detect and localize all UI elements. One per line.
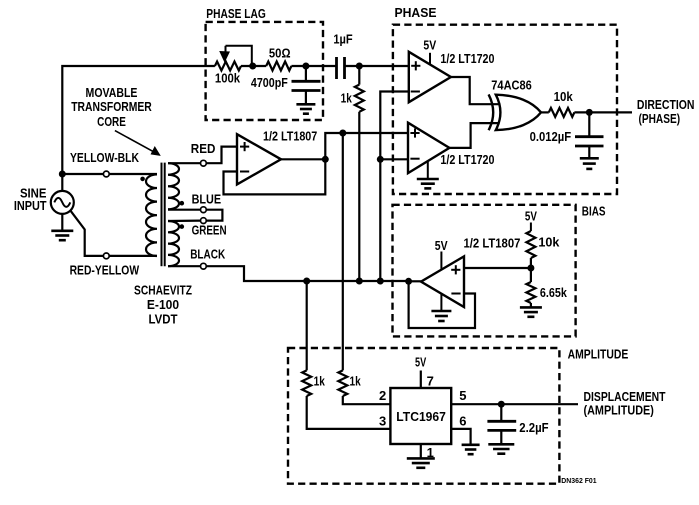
capacitor 0.012µF [575, 112, 604, 158]
label 6.65k [540, 285, 568, 300]
svg-text:(PHASE): (PHASE) [639, 111, 681, 126]
wire 5V stub comparator top [429, 53, 431, 65]
terminal BLACK [201, 263, 207, 269]
wire sine to ground [61, 214, 63, 231]
pin label 5 [459, 388, 466, 403]
capacitor 1µF [337, 57, 409, 79]
label 10k bias [538, 234, 560, 249]
svg-text:1/2 LT1807: 1/2 LT1807 [263, 128, 317, 143]
svg-text:100k: 100k [215, 71, 241, 86]
wire sine to primary bottom [70, 211, 157, 256]
svg-text:1/2 LT1720: 1/2 LT1720 [440, 51, 494, 66]
terminal RED-YELLOW [103, 253, 109, 259]
wire BLACK lead [168, 265, 200, 267]
svg-text:5V: 5V [415, 355, 426, 370]
pin label 3 [379, 414, 386, 429]
wire RED lead [168, 162, 200, 164]
terminal GREEN [201, 218, 207, 224]
label DN362 F01 [561, 478, 596, 485]
svg-text:LTC1967: LTC1967 [396, 409, 446, 424]
wire signal down to amplitude [342, 133, 344, 370]
label 5V comparator top [423, 38, 436, 53]
label PHASE LAG [206, 6, 265, 21]
potentiometer 100k [215, 46, 252, 71]
wire 5V stub bias op-amp [440, 252, 442, 270]
svg-text:BLUE: BLUE [192, 192, 222, 207]
phase dot secondary S1 [180, 201, 185, 206]
label BLUE [192, 192, 222, 207]
label RED-YELLOW [70, 262, 140, 277]
svg-text:1k: 1k [314, 374, 326, 389]
op-amp U3 1/2 LT1807 bias [421, 256, 464, 307]
svg-text:1k: 1k [350, 374, 362, 389]
resistor 1k left [302, 370, 311, 396]
svg-text:10k: 10k [538, 234, 560, 249]
wire 50ohm to 1uF [291, 65, 336, 67]
pin label 6 [459, 414, 466, 429]
svg-text:BIAS: BIAS [582, 203, 606, 218]
svg-text:2.2µF: 2.2µF [519, 420, 548, 435]
pin label 2 [379, 388, 386, 403]
wire buffer feedback [224, 159, 326, 194]
svg-text:DN362 F01: DN362 F01 [561, 478, 596, 485]
wire bias down to amplitude [306, 281, 308, 370]
svg-text:PHASE: PHASE [395, 5, 437, 20]
wire pot to 50ohm [241, 65, 266, 67]
wire xor output [541, 111, 549, 113]
svg-text:SCHAEVITZ: SCHAEVITZ [134, 283, 192, 298]
node 1k-bias junction [356, 278, 363, 285]
label 5V divider [525, 208, 537, 223]
op-amp U1 1/2 LT1807 buffer [237, 134, 281, 184]
svg-text:TRANSFORMER: TRANSFORMER [71, 99, 152, 114]
svg-text:INPUT: INPUT [14, 198, 47, 213]
wire pin 7 5V stub [420, 371, 422, 389]
wire pin 5 output [451, 403, 578, 405]
capacitor 2.2µF [487, 404, 516, 444]
wire sine node up to phase-lag input [62, 66, 215, 174]
transformer primary winding [146, 174, 157, 256]
wire buffer output to comparator B + [325, 133, 409, 159]
node divider junction [527, 265, 534, 272]
node 4700pF junction [302, 63, 309, 70]
svg-text:YELLOW-BLK: YELLOW-BLK [70, 150, 139, 165]
wire pin 6 to ground [451, 429, 470, 445]
wire bias vertical to comparators [380, 92, 409, 282]
dashed box AMPLITUDE [288, 348, 559, 484]
svg-text:BLACK: BLACK [190, 246, 225, 261]
terminal BLUE [201, 207, 207, 213]
resistor 10k bias [526, 231, 535, 258]
svg-text:(AMPLITUDE): (AMPLITUDE) [584, 402, 654, 417]
label 0.012µF [530, 129, 572, 144]
IC U4 LTC1967 [390, 388, 451, 444]
sine source V1 [51, 174, 74, 214]
ground 6.65k [520, 307, 542, 316]
label SINE INPUT [14, 185, 47, 213]
wire 1k left to pin 3 [307, 396, 391, 429]
terminal YELLOW-BLK [103, 171, 109, 177]
svg-text:4700pF: 4700pF [251, 75, 288, 90]
svg-text:50Ω: 50Ω [269, 45, 291, 60]
ground pin 6 [462, 445, 480, 454]
wire 10k to output [574, 111, 632, 113]
svg-text:AMPLITUDE: AMPLITUDE [568, 346, 629, 361]
svg-text:LVDT: LVDT [149, 311, 178, 326]
wire RED to buffer + [207, 147, 237, 164]
wire primary top lead [62, 173, 157, 175]
label 1/2 LT1720 top [440, 51, 494, 66]
svg-text:MOVABLE: MOVABLE [86, 85, 138, 100]
transformer secondary winding S2 [168, 221, 179, 266]
wire 1k right to pin 2 [343, 396, 391, 404]
label 1k right [350, 374, 362, 389]
resistor 50Ω [266, 62, 291, 71]
wire 6.65k to ground [530, 303, 532, 307]
label DIRECTION (PHASE) [637, 97, 695, 126]
wire bias feedback [409, 281, 475, 328]
svg-text:2: 2 [379, 388, 386, 403]
svg-text:1µF: 1µF [333, 32, 352, 47]
capacitor 4700pF [292, 66, 321, 104]
ground pin 1 [407, 458, 435, 467]
wire buffer output [281, 158, 325, 160]
label MOVABLE TRANSFORMER CORE [71, 85, 152, 129]
wire comparator bottom output [449, 123, 499, 148]
node bias bus comparator tap [377, 278, 384, 285]
svg-text:RED: RED [191, 141, 216, 156]
pin label 7 [427, 374, 434, 389]
svg-text:RED-YELLOW: RED-YELLOW [70, 262, 140, 277]
wire bias to comparator B - [380, 158, 408, 160]
wire BLUE-GREEN link [207, 210, 223, 221]
phase dot secondary S2 [180, 224, 185, 229]
svg-text:0.012µF: 0.012µF [530, 129, 572, 144]
dashed box PHASE LAG [206, 22, 323, 120]
ground bias op-amp [431, 311, 451, 321]
wire BLACK to bias bus [207, 266, 409, 281]
label 1/2 LT1807 buffer [263, 128, 317, 143]
node pot-50ohm junction [249, 63, 256, 70]
svg-text:74AC86: 74AC86 [491, 78, 532, 93]
node buffer output [322, 156, 329, 163]
phase dot primary [140, 177, 145, 182]
ground 4700pF [296, 104, 315, 113]
wire comparator top output [451, 77, 499, 104]
label DISPLACEMENT (AMPLITUDE) [584, 389, 666, 417]
svg-text:6: 6 [459, 414, 466, 429]
wire divider mid [530, 258, 532, 282]
wire comparator bottom ground stub [427, 161, 429, 179]
svg-text:CORE: CORE [97, 114, 126, 129]
svg-text:10k: 10k [554, 89, 574, 104]
wire 5V stub divider [530, 223, 532, 232]
label GREEN [192, 223, 227, 238]
label YELLOW-BLK [70, 150, 139, 165]
ground 2.2µF [488, 444, 514, 453]
label BIAS [582, 203, 606, 218]
svg-text:3: 3 [379, 414, 386, 429]
wire bias op-amp ground stub [440, 294, 442, 311]
node 1uF output [356, 63, 363, 70]
comparator U2a 1/2 LT1720 top [409, 52, 451, 102]
ground sine source [51, 231, 73, 240]
terminal RED [201, 160, 207, 166]
wire bias + input [464, 267, 531, 269]
wire pin 1 stub [420, 444, 422, 458]
node pin5-cap junction [498, 401, 505, 408]
label 1k left [314, 374, 326, 389]
svg-text:5: 5 [459, 388, 466, 403]
svg-text:5V: 5V [435, 238, 448, 253]
node signal to LTC1967 [339, 130, 346, 137]
label PHASE [395, 5, 437, 20]
svg-text:1/2 LT1807: 1/2 LT1807 [464, 235, 521, 250]
svg-text:E-100: E-100 [147, 297, 179, 312]
resistor 1k coupling [355, 66, 364, 281]
svg-text:GREEN: GREEN [192, 223, 227, 238]
label 50Ω [269, 45, 291, 60]
comparator U2b 1/2 LT1720 bottom [408, 123, 449, 173]
label 1µF [333, 32, 352, 47]
node direction output [586, 109, 593, 116]
label 5V LTC1967 [415, 355, 426, 370]
wire GREEN lead [168, 220, 200, 223]
label 1k coupling [341, 90, 353, 105]
xor gate 74AC86 [489, 94, 541, 130]
label 100k [215, 71, 241, 86]
node sine-primary junction [59, 171, 66, 178]
ground comparator bottom [417, 179, 439, 188]
label 1/2 LT1720 bottom [440, 152, 494, 167]
svg-text:5V: 5V [525, 208, 537, 223]
resistor 10k phase [549, 108, 575, 117]
svg-text:1/2 LT1720: 1/2 LT1720 [440, 152, 494, 167]
label BLACK [190, 246, 225, 261]
wire bias output to apex [409, 280, 421, 282]
node bias output [405, 278, 412, 285]
svg-text:DIRECTION: DIRECTION [637, 97, 695, 112]
label SCHAEVITZ E-100 LVDT [134, 283, 192, 327]
label RED [191, 141, 216, 156]
label 5V bias op-amp [435, 238, 448, 253]
label 74AC86 [491, 78, 532, 93]
svg-text:1k: 1k [341, 90, 353, 105]
label 1/2 LT1807 bias [464, 235, 521, 250]
node bias mid junction [377, 156, 384, 163]
arrow to core [115, 131, 160, 156]
svg-text:5V: 5V [423, 38, 436, 53]
label AMPLITUDE [568, 346, 629, 361]
label 2.2µF [519, 420, 548, 435]
resistor 1k right [338, 370, 347, 396]
wire BLUE lead [168, 209, 200, 211]
svg-text:7: 7 [427, 374, 434, 389]
dashed box PHASE [393, 25, 617, 194]
svg-text:6.65k: 6.65k [540, 285, 568, 300]
ground 0.012µF [580, 158, 599, 169]
label 4700pF [251, 75, 288, 90]
dashed box BIAS [393, 205, 576, 337]
transformer secondary winding S1 [168, 163, 179, 209]
transformer core [162, 163, 165, 267]
node bias-LTC junction [303, 278, 310, 285]
pin label 1 [427, 445, 434, 460]
resistor 6.65k [526, 282, 535, 303]
svg-text:PHASE LAG: PHASE LAG [206, 6, 265, 21]
label 10k phase [554, 89, 574, 104]
